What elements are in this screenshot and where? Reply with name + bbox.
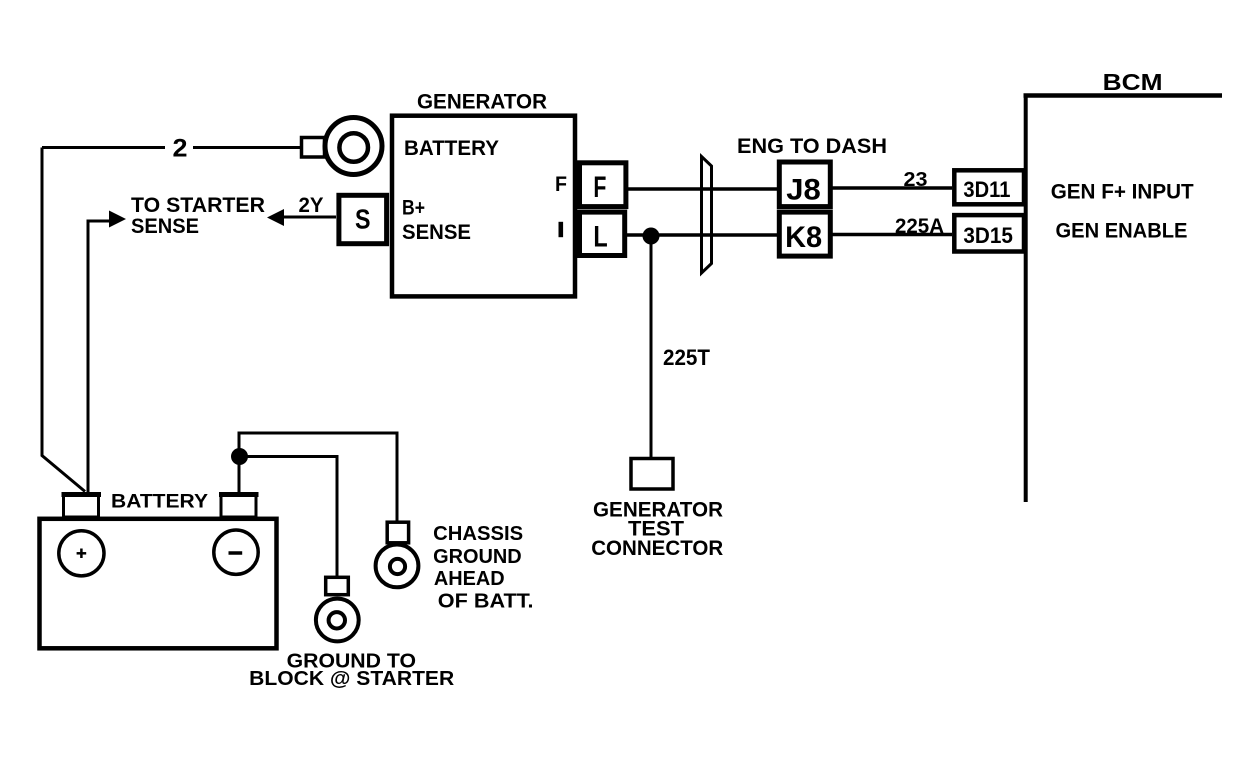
wire: junction right to ground-to-block bbox=[239, 457, 337, 577]
svg-text:B+: B+ bbox=[402, 196, 425, 220]
svg-text:ENG TO DASH: ENG TO DASH bbox=[737, 134, 887, 158]
wire 2 (right segment to ring terminal) bbox=[193, 146, 301, 149]
wire L to K8 bbox=[627, 233, 777, 237]
terminal F box bbox=[580, 163, 626, 207]
BCM outline (left vertical line) bbox=[1024, 94, 1028, 503]
generator test connector box bbox=[631, 459, 673, 490]
svg-text:AHEAD: AHEAD bbox=[434, 567, 505, 590]
battery + terminal circle bbox=[59, 531, 104, 576]
connector J8 box bbox=[779, 162, 830, 207]
wire F to J8 bbox=[628, 187, 777, 191]
in-line connector blade bbox=[702, 157, 712, 274]
svg-text:SENSE: SENSE bbox=[131, 214, 199, 238]
svg-text:BATTERY: BATTERY bbox=[111, 492, 208, 513]
terminal L box bbox=[580, 212, 625, 255]
svg-text:CONNECTOR: CONNECTOR bbox=[591, 537, 723, 560]
svg-text:BLOCK @ STARTER: BLOCK @ STARTER bbox=[249, 667, 454, 690]
wire 23 bbox=[832, 186, 952, 190]
chassis ground terminal bbox=[376, 522, 419, 587]
svg-text:S: S bbox=[355, 204, 371, 235]
svg-text:225T: 225T bbox=[663, 345, 711, 370]
svg-text:2Y: 2Y bbox=[299, 193, 324, 217]
wire: starter sense branch bbox=[88, 221, 110, 492]
svg-text:SENSE: SENSE bbox=[402, 220, 471, 244]
battery - terminal circle bbox=[214, 530, 258, 574]
battery box bbox=[40, 519, 277, 649]
svg-text:3D15: 3D15 bbox=[963, 223, 1013, 248]
svg-text:GROUND: GROUND bbox=[433, 545, 522, 568]
wire: junction dot down to battery - post bbox=[238, 456, 241, 494]
generator box bbox=[392, 116, 575, 297]
BCM outline (top line) bbox=[1024, 93, 1223, 98]
pin label I bbox=[559, 222, 564, 237]
wire 225A bbox=[832, 233, 952, 237]
svg-text:GEN ENABLE: GEN ENABLE bbox=[1056, 219, 1188, 243]
wire 225T (down to test connector) bbox=[650, 236, 653, 457]
wire: left vertical drop to battery + bbox=[42, 148, 85, 492]
svg-text:OF BATT.: OF BATT. bbox=[438, 589, 534, 612]
svg-text:F: F bbox=[555, 172, 567, 196]
terminal 3D11 bbox=[954, 170, 1024, 204]
junction dot on L wire bbox=[643, 228, 660, 245]
svg-text:K8: K8 bbox=[785, 221, 822, 254]
wire: junction up and over to chassis ground bbox=[239, 433, 397, 521]
svg-text:J8: J8 bbox=[786, 174, 821, 207]
svg-text:GENERATOR: GENERATOR bbox=[417, 91, 547, 114]
svg-text:3D11: 3D11 bbox=[963, 177, 1010, 202]
svg-text:CHASSIS: CHASSIS bbox=[433, 522, 523, 545]
svg-text:BCM: BCM bbox=[1103, 69, 1163, 95]
svg-text:BATTERY: BATTERY bbox=[404, 136, 499, 160]
junction dot (battery ground) bbox=[231, 448, 248, 465]
svg-text:F: F bbox=[593, 171, 606, 204]
svg-text:GEN F+ INPUT: GEN F+ INPUT bbox=[1051, 179, 1194, 203]
svg-text:L: L bbox=[593, 221, 607, 254]
svg-text:23: 23 bbox=[904, 169, 928, 191]
wire 2 (battery feed from generator, left segment) bbox=[42, 146, 165, 149]
wire 2Y bbox=[283, 216, 336, 219]
battery + post bbox=[62, 494, 102, 517]
arrowhead to starter sense bbox=[109, 211, 126, 228]
ring terminal (generator battery output) bbox=[302, 118, 383, 175]
connector K8 box bbox=[779, 212, 830, 256]
battery - post bbox=[219, 494, 259, 517]
terminal S box bbox=[339, 195, 387, 243]
svg-text:225A: 225A bbox=[895, 214, 944, 238]
svg-text:2: 2 bbox=[173, 135, 188, 163]
terminal 3D15 bbox=[954, 215, 1024, 251]
arrowhead 2Y bbox=[267, 209, 284, 226]
ground-to-block terminal bbox=[316, 577, 359, 641]
